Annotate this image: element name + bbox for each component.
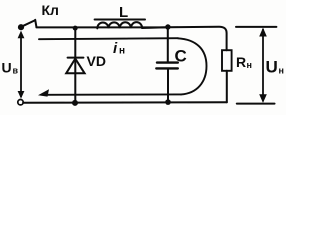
svg-text:н: н	[279, 66, 284, 76]
label Кл (switch name)	[42, 2, 59, 18]
label L (inductor value label)	[119, 4, 128, 21]
current loop iн right arc	[178, 38, 207, 94]
Uп arrow down (to terminal)	[18, 91, 25, 99]
label Rн	[236, 54, 252, 70]
svg-text:н: н	[119, 46, 125, 57]
svg-text:R: R	[236, 54, 246, 70]
wire right side: resistor bottom to bottom rail	[226, 71, 228, 102]
inductor L core bar	[95, 19, 145, 21]
svg-text:Кл: Кл	[42, 2, 59, 18]
wire top rail: capacitor node to right corner, down right side to resistor	[168, 27, 227, 51]
current loop iн bottom segment	[43, 93, 181, 95]
wire bottom rail	[23, 101, 227, 104]
resistor Rн body	[222, 50, 232, 71]
capacitor C bottom plate	[156, 67, 178, 69]
svg-text:VD: VD	[87, 53, 106, 69]
Uн dimension bottom tick	[237, 103, 275, 105]
node: capacitor bottom junction	[165, 99, 171, 105]
svg-text:в: в	[13, 66, 19, 76]
input terminal (bottom left circle)	[18, 100, 23, 105]
switch Кл right contact	[35, 20, 36, 27]
svg-text:U: U	[266, 57, 278, 76]
node: diode top junction	[73, 26, 78, 31]
inductor L winding	[97, 22, 142, 28]
label iн (load current)	[113, 40, 125, 57]
svg-text:U: U	[2, 59, 12, 75]
svg-text:L: L	[119, 4, 128, 21]
node: diode bottom junction	[72, 100, 78, 106]
capacitor C top plate	[157, 61, 178, 63]
current loop iн top segment	[39, 38, 178, 39]
Uн dimension top tick	[236, 26, 276, 28]
Uп arrow up (to switch node)	[18, 31, 25, 39]
label VD	[87, 53, 106, 69]
Uн arrow up	[259, 28, 267, 37]
node: capacitor top junction	[165, 24, 170, 29]
svg-text:н: н	[247, 60, 252, 70]
Uп dimension line (input voltage) vertical	[20, 34, 22, 97]
switch Кл blade	[23, 20, 35, 26]
svg-text:i: i	[113, 40, 118, 57]
wire diode branch vertical	[74, 28, 76, 102]
svg-text:C: C	[175, 46, 187, 65]
diode VD cathode bar	[68, 57, 84, 59]
label Uн	[266, 57, 284, 76]
wire top rail: inductor to capacitor node	[142, 26, 168, 29]
Uн dimension line vertical	[262, 30, 264, 101]
label Uп	[2, 59, 19, 75]
wire capacitor branch upper	[167, 27, 169, 61]
diode VD triangle	[66, 59, 84, 74]
label C	[175, 46, 187, 65]
switch Кл pivot node	[18, 24, 24, 30]
wire top rail: switch contact to capacitor node (runs under inductor)	[36, 26, 167, 28]
Uн arrow down	[259, 94, 267, 103]
wire capacitor branch lower	[167, 70, 169, 103]
current loop iн arrowhead (points left)	[38, 89, 49, 96]
